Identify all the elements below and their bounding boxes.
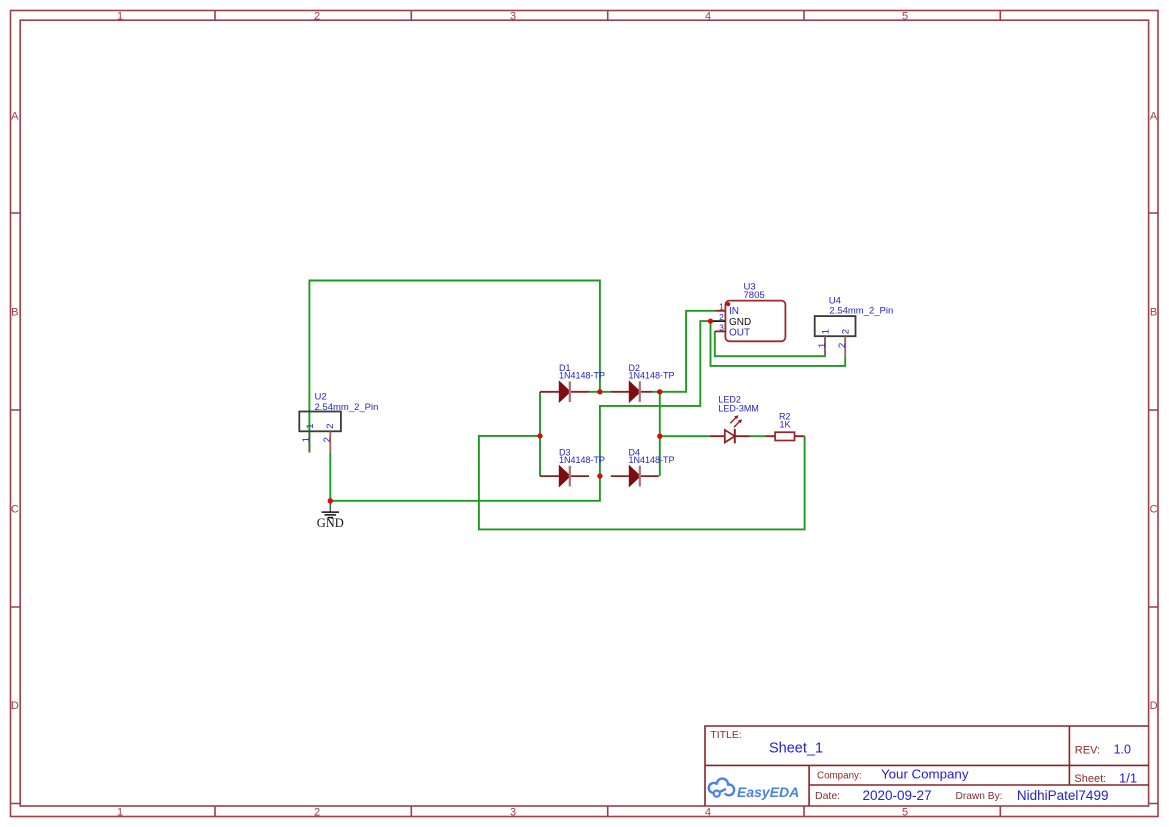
svg-text:1N4148-TP: 1N4148-TP xyxy=(559,370,605,380)
svg-text:1: 1 xyxy=(820,329,831,334)
svg-text:3: 3 xyxy=(510,10,516,22)
svg-text:B: B xyxy=(11,306,18,318)
svg-text:1N4148-TP: 1N4148-TP xyxy=(629,455,675,465)
svg-text:Drawn By:: Drawn By: xyxy=(956,791,1003,802)
svg-text:1: 1 xyxy=(719,302,724,312)
svg-text:1: 1 xyxy=(117,806,123,818)
svg-text:Company:: Company: xyxy=(817,770,862,781)
svg-text:1N4148-TP: 1N4148-TP xyxy=(559,455,605,465)
svg-text:2.54mm_2_Pin: 2.54mm_2_Pin xyxy=(315,402,379,413)
svg-text:Sheet:: Sheet: xyxy=(1074,773,1106,785)
svg-text:2: 2 xyxy=(719,312,724,322)
svg-text:B: B xyxy=(1150,306,1157,318)
svg-text:1K: 1K xyxy=(780,420,791,430)
svg-text:3: 3 xyxy=(719,323,724,333)
svg-text:C: C xyxy=(1150,503,1158,515)
svg-text:1/1: 1/1 xyxy=(1119,770,1137,785)
svg-text:A: A xyxy=(11,110,19,122)
svg-text:U2: U2 xyxy=(315,392,327,403)
svg-text:TITLE:: TITLE: xyxy=(710,729,742,741)
svg-text:2: 2 xyxy=(837,343,848,348)
svg-text:3: 3 xyxy=(510,806,516,818)
svg-text:D: D xyxy=(11,700,19,712)
svg-text:Date:: Date: xyxy=(815,790,840,802)
svg-text:7805: 7805 xyxy=(744,290,765,301)
svg-text:1.0: 1.0 xyxy=(1114,742,1131,756)
svg-text:IN: IN xyxy=(729,306,739,317)
svg-text:2: 2 xyxy=(325,424,336,429)
svg-text:2: 2 xyxy=(841,329,852,334)
svg-text:NidhiPatel7499: NidhiPatel7499 xyxy=(1017,788,1109,803)
svg-text:EasyEDA: EasyEDA xyxy=(737,784,799,800)
svg-text:1: 1 xyxy=(301,437,312,442)
svg-text:GND: GND xyxy=(729,317,751,328)
svg-text:5: 5 xyxy=(902,806,908,818)
svg-text:2: 2 xyxy=(314,806,320,818)
svg-text:LED-3MM: LED-3MM xyxy=(718,404,759,414)
svg-text:2.54mm_2_Pin: 2.54mm_2_Pin xyxy=(829,305,893,316)
svg-text:D: D xyxy=(1150,700,1158,712)
svg-text:5: 5 xyxy=(902,10,908,22)
svg-text:A: A xyxy=(1150,110,1158,122)
svg-text:2020-09-27: 2020-09-27 xyxy=(863,788,932,803)
svg-text:C: C xyxy=(11,503,19,515)
svg-text:OUT: OUT xyxy=(729,327,750,338)
svg-text:1: 1 xyxy=(817,343,828,348)
svg-text:REV:: REV: xyxy=(1075,744,1100,756)
svg-text:1: 1 xyxy=(117,10,123,22)
svg-text:2: 2 xyxy=(314,10,320,22)
svg-text:2: 2 xyxy=(322,437,333,442)
svg-text:GND: GND xyxy=(317,516,344,530)
svg-text:Sheet_1: Sheet_1 xyxy=(769,741,823,757)
svg-text:4: 4 xyxy=(705,806,711,818)
svg-text:Your Company: Your Company xyxy=(881,767,969,782)
svg-text:1N4148-TP: 1N4148-TP xyxy=(629,370,675,380)
svg-text:4: 4 xyxy=(705,10,711,22)
svg-text:1: 1 xyxy=(305,424,316,429)
